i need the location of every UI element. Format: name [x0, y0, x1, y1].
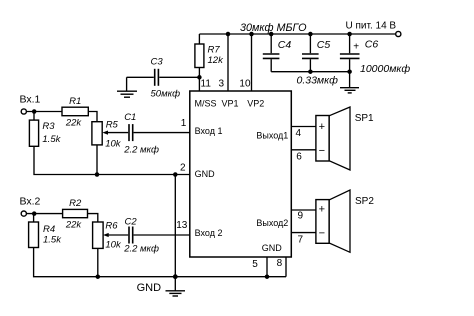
junction power rail / C4 — [269, 32, 274, 37]
wire input2 to R2 — [27, 213, 63, 215]
svg-text:2.2 мкф: 2.2 мкф — [123, 244, 159, 255]
junction input1 / R3 — [32, 109, 37, 114]
wire 0.33 bus C4-C5-C6 — [271, 71, 349, 73]
resistor R3 — [29, 112, 38, 147]
resistor R5 (trimmer) — [92, 122, 102, 145]
junction power rail / pin 10 — [249, 32, 254, 37]
wire pin 10 — [251, 34, 253, 91]
wire R3 bottom / ch1 gnd rail to pin 2 — [34, 146, 190, 174]
wire C3 right to pin 11 — [159, 76, 199, 78]
resistor R4 — [29, 214, 39, 248]
junction input2 / R4 — [32, 211, 37, 216]
svg-text:30мкф МБГО: 30мкф МБГО — [240, 22, 307, 34]
svg-text:10: 10 — [239, 78, 251, 89]
wire R5 bottom — [96, 145, 98, 175]
op-amp U1 (amplifier IC box) — [190, 91, 291, 257]
wire pin 7 to SP2 — [291, 232, 316, 234]
svg-text:C5: C5 — [317, 39, 331, 51]
junction power rail / C6 — [347, 32, 352, 37]
svg-text:7: 7 — [298, 235, 304, 246]
svg-text:R2: R2 — [69, 198, 82, 209]
speaker SP2 — [316, 190, 350, 252]
capacitor C4 — [263, 34, 280, 72]
svg-text:10000мкф: 10000мкф — [360, 63, 410, 75]
svg-text:VP2: VP2 — [247, 98, 264, 108]
svg-text:Вх.2: Вх.2 — [20, 195, 41, 207]
wire C2 to pin 13 — [134, 234, 190, 236]
junction ch1 gnd rail / vertical gnd link — [173, 172, 178, 177]
junction R5 / ch1 gnd rail — [95, 172, 100, 177]
svg-text:11: 11 — [201, 78, 212, 89]
junction bus / C5 — [308, 69, 313, 74]
svg-text:R3: R3 — [42, 121, 55, 132]
svg-text:2.2 мкф: 2.2 мкф — [123, 145, 159, 156]
resistor R2 — [63, 209, 88, 217]
svg-text:C3: C3 — [151, 56, 164, 67]
capacitor C2 — [129, 227, 133, 244]
wire pin 4 to SP1 — [291, 126, 316, 128]
svg-text:12k: 12k — [208, 55, 225, 66]
svg-text:R4: R4 — [43, 224, 55, 235]
svg-text:1.5k: 1.5k — [43, 235, 62, 246]
wiper arrow R5 — [102, 131, 128, 135]
svg-text:R1: R1 — [69, 96, 81, 107]
svg-text:22k: 22k — [65, 220, 83, 231]
svg-text:GND: GND — [195, 169, 216, 179]
svg-text:50мкф: 50мкф — [151, 88, 181, 99]
wire R4 bottom / gnd bus — [34, 248, 286, 277]
svg-text:10k: 10k — [105, 240, 122, 251]
junction bus / C6 — [347, 69, 352, 74]
svg-text:0.33мкф: 0.33мкф — [297, 74, 339, 86]
svg-text:2: 2 — [180, 163, 186, 174]
svg-text:4: 4 — [296, 128, 302, 139]
svg-text:Вход 1: Вход 1 — [195, 126, 223, 136]
svg-text:22k: 22k — [65, 117, 83, 128]
wiper arrow R6 — [103, 233, 128, 237]
svg-text:M/SS: M/SS — [195, 98, 217, 108]
svg-text:+: + — [353, 42, 359, 53]
junction R6 / gnd bus — [96, 274, 101, 279]
wire pin 3 — [227, 34, 229, 91]
svg-text:+: + — [319, 203, 325, 215]
junction power rail / pin 3 — [226, 32, 231, 37]
svg-text:SP1: SP1 — [355, 113, 374, 124]
wire R2 to R6 top — [88, 214, 98, 222]
svg-text:Вход 2: Вход 2 — [195, 228, 223, 238]
svg-text:1: 1 — [181, 118, 187, 129]
resistor R7 — [195, 44, 204, 68]
speaker SP1 — [316, 107, 350, 170]
svg-text:+: + — [319, 121, 325, 133]
junction power rail / C5 — [308, 32, 313, 37]
terminal Вх.2 (open circle) — [21, 211, 26, 216]
wire pin 6 to SP1 — [291, 149, 316, 151]
svg-text:Выход1: Выход1 — [256, 131, 288, 141]
resistor R1 — [62, 107, 88, 116]
wire vertical gnd link — [174, 175, 176, 277]
svg-text:GND: GND — [137, 282, 162, 294]
svg-text:SP2: SP2 — [355, 196, 374, 207]
resistor R6 (trimmer) — [93, 222, 104, 248]
ground main — [166, 277, 186, 296]
svg-text:R6: R6 — [105, 220, 118, 231]
junction R7 / C3 — [197, 75, 202, 80]
wire top power rail — [199, 33, 395, 35]
svg-text:C6: C6 — [365, 39, 379, 51]
svg-text:R7: R7 — [208, 44, 221, 55]
wire C1 to pin 1 — [134, 132, 190, 134]
svg-text:Выход2: Выход2 — [256, 218, 288, 228]
svg-text:U пит. 14 В: U пит. 14 В — [346, 20, 397, 31]
wire R7 bottom to pin 11 — [198, 68, 200, 92]
wire input1 to R1 — [27, 111, 63, 113]
svg-text:9: 9 — [298, 210, 304, 221]
svg-text:1.5k: 1.5k — [42, 134, 61, 145]
svg-text:8: 8 — [277, 258, 283, 269]
junction gnd bus / vertical link — [173, 274, 178, 279]
svg-text:VP1: VP1 — [222, 98, 239, 108]
svg-text:−: − — [319, 227, 325, 239]
svg-text:13: 13 — [176, 220, 188, 231]
wire R6 bottom — [97, 248, 99, 276]
wire pin 5 — [266, 257, 268, 277]
svg-text:C1: C1 — [124, 112, 136, 123]
svg-text:5: 5 — [252, 259, 258, 270]
wire pin 9 to SP2 — [291, 209, 316, 211]
svg-text:R5: R5 — [106, 120, 119, 131]
svg-text:C2: C2 — [125, 216, 138, 227]
junction gnd bus / pin 5 — [265, 274, 270, 279]
ground at C6 — [340, 72, 359, 93]
wire C3 left — [127, 76, 154, 78]
terminal U pit (open circle) — [396, 31, 401, 36]
capacitor C1 — [129, 124, 133, 141]
svg-text:Вх.1: Вх.1 — [20, 93, 41, 105]
node power rail / R7 corner — [198, 34, 200, 44]
svg-text:3: 3 — [218, 78, 224, 89]
wire R1 to R5 top — [88, 112, 97, 122]
terminal Вх.1 (open circle) — [21, 109, 26, 114]
capacitor C6 — [340, 34, 360, 72]
svg-text:−: − — [319, 145, 325, 157]
wire pin 8 — [285, 257, 287, 277]
capacitor C3 — [155, 69, 159, 86]
capacitor C5 — [302, 34, 319, 72]
svg-text:GND: GND — [262, 243, 283, 253]
ground at C3 — [117, 77, 137, 97]
svg-text:6: 6 — [296, 152, 302, 163]
svg-text:C4: C4 — [278, 39, 292, 51]
svg-text:10k: 10k — [105, 139, 122, 150]
